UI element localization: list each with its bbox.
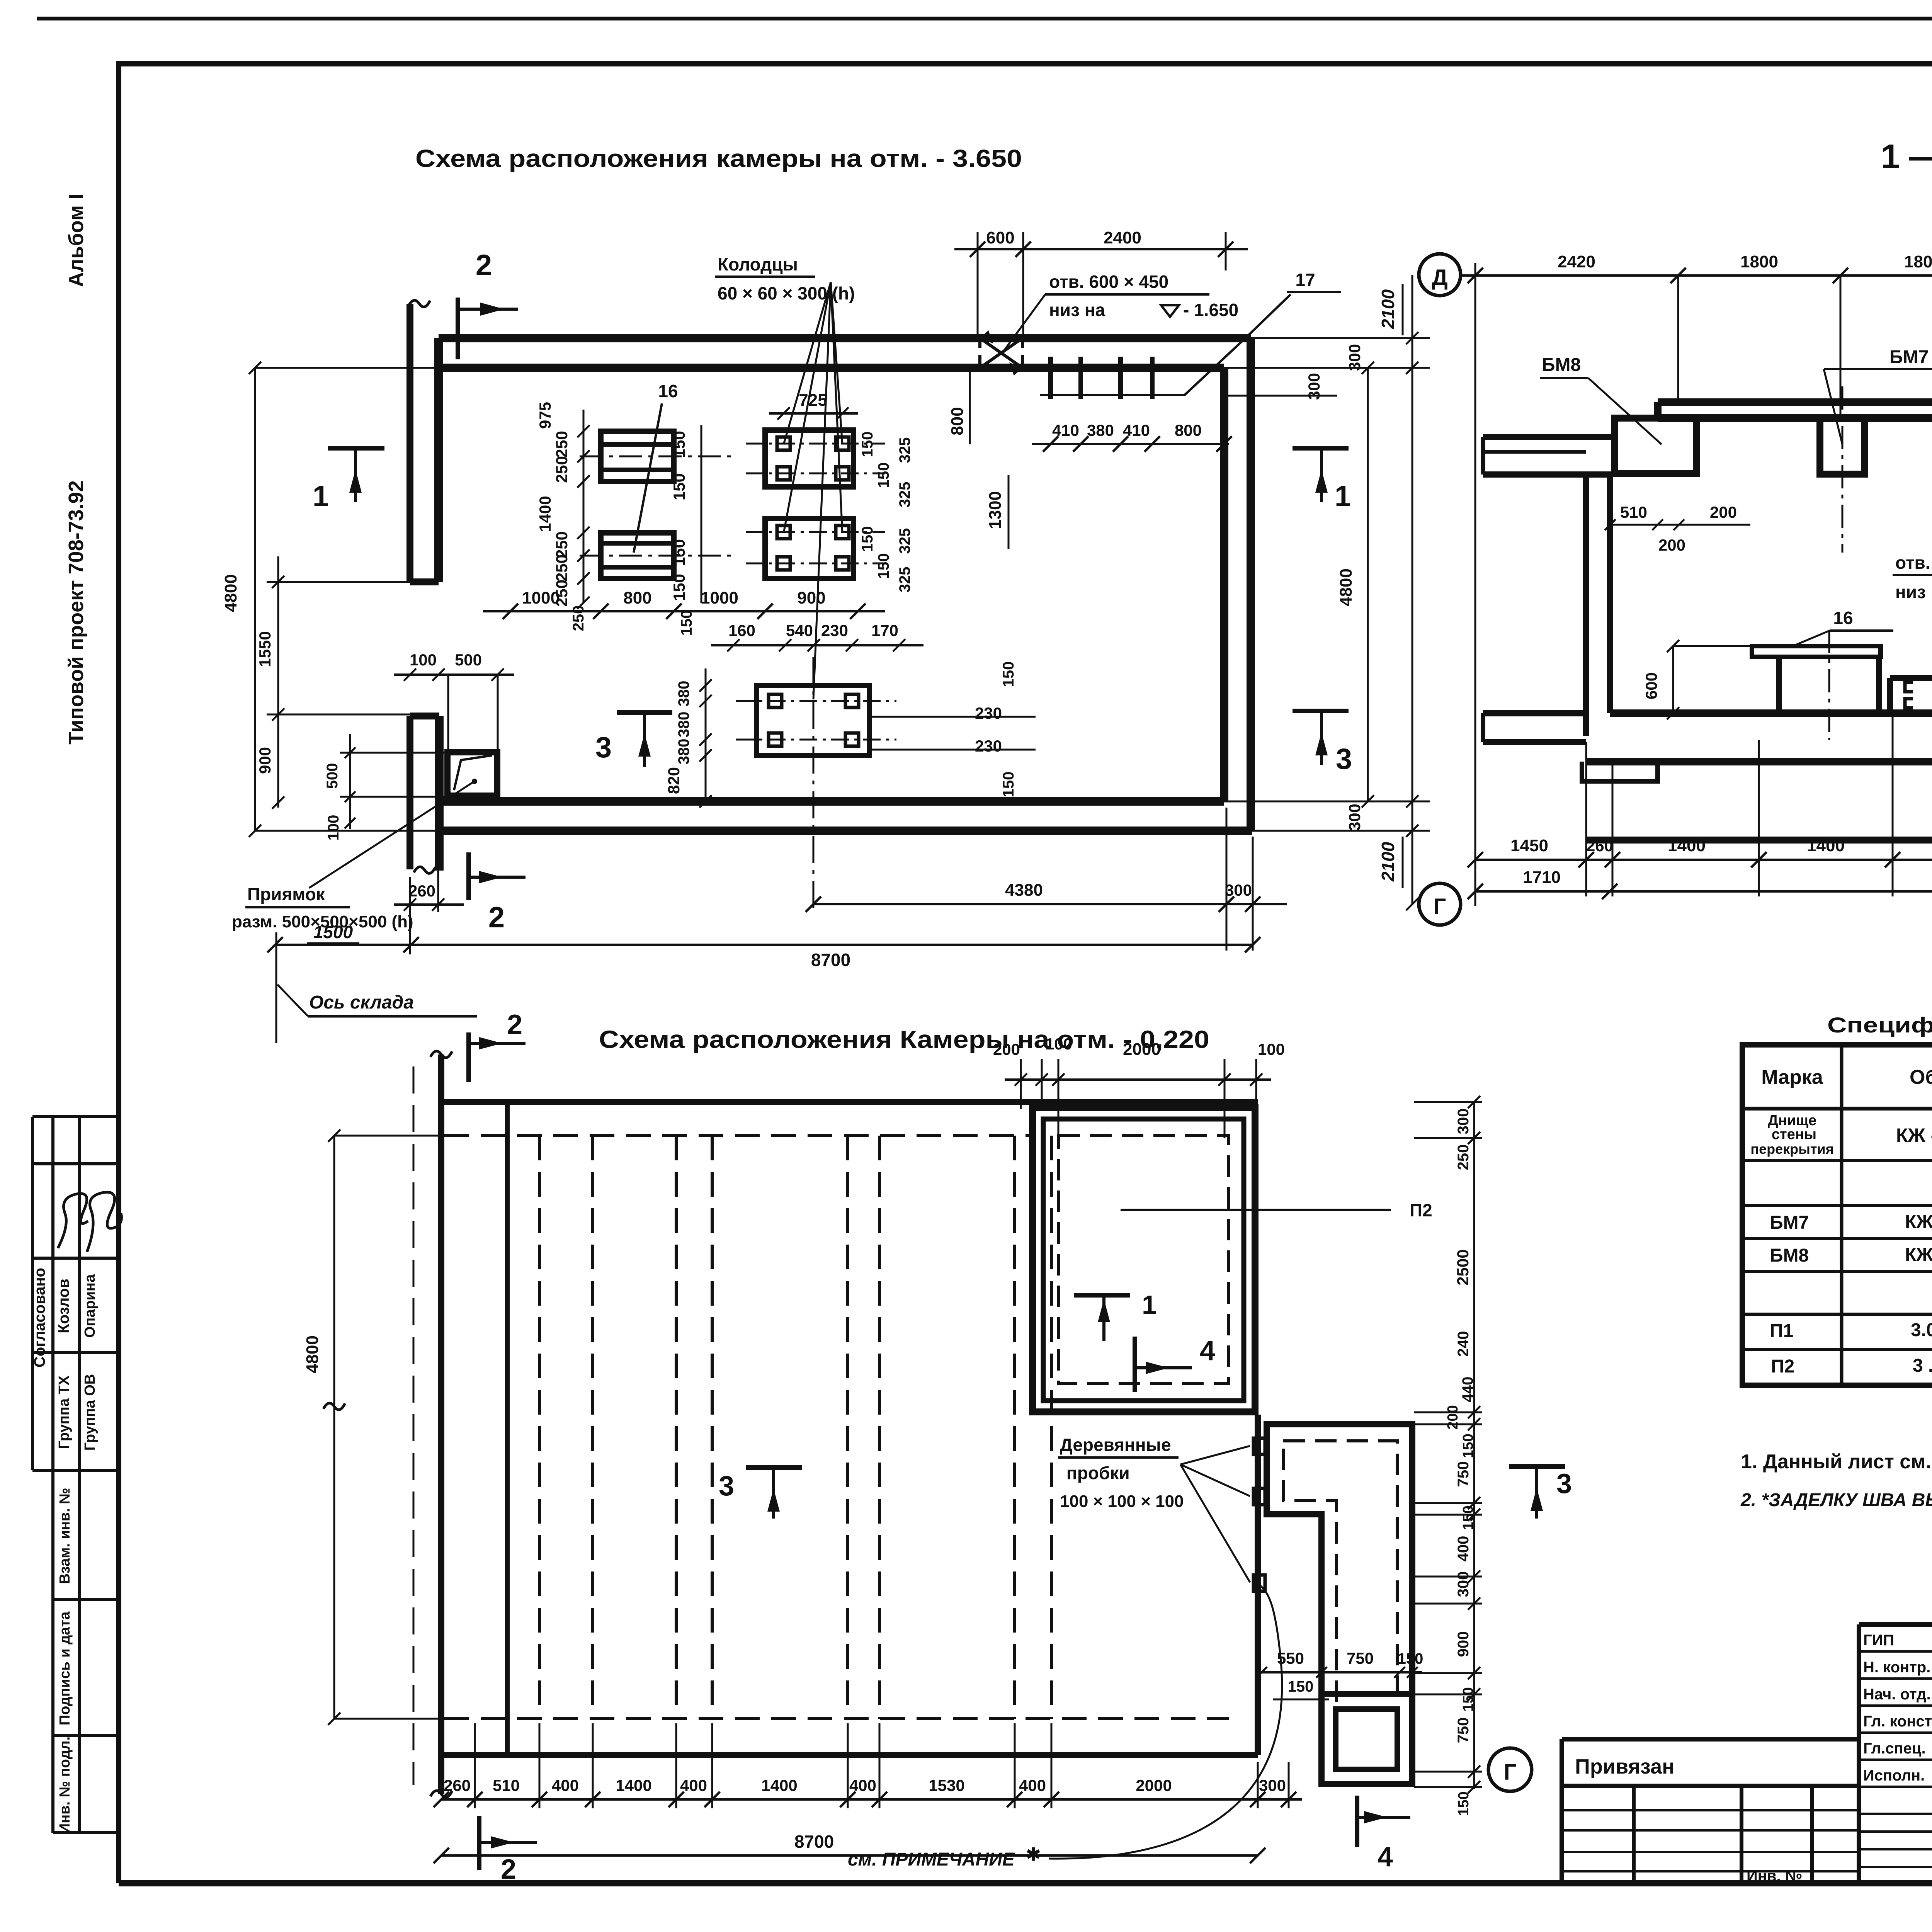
svg-text:230: 230: [975, 704, 1002, 722]
svg-text:Группа ОВ: Группа ОВ: [82, 1374, 98, 1451]
svg-text:2: 2: [476, 249, 492, 282]
section mark 1 left of plan A: [328, 446, 384, 451]
svg-text:БМ8: БМ8: [1542, 355, 1581, 375]
section mark 3 inside plan B: [746, 1465, 802, 1470]
svg-text:17: 17: [1295, 270, 1315, 290]
extension lines left: [255, 367, 439, 369]
plan A room right wall: [1247, 338, 1255, 831]
svg-text:4800: 4800: [303, 1335, 322, 1373]
door jamb symbols: [1905, 682, 1913, 708]
svg-text:Деревянные: Деревянные: [1060, 1435, 1171, 1455]
svg-text:400: 400: [1455, 1536, 1472, 1562]
dim 725 above колодцы: [769, 412, 858, 415]
svg-text:410: 410: [1123, 421, 1150, 439]
колодцы block middle: [765, 519, 854, 578]
svg-text:Н. контр.: Н. контр.: [1863, 1659, 1930, 1676]
beam centerlines dash-dot: [1842, 386, 1844, 553]
svg-text:150: 150: [670, 539, 688, 566]
svg-text:стены: стены: [1772, 1126, 1816, 1143]
section mark 1 right of plan A: [1293, 446, 1349, 451]
svg-text:2: 2: [488, 901, 505, 934]
svg-text:4: 4: [1200, 1335, 1215, 1366]
svg-text:4380: 4380: [1005, 881, 1043, 900]
slab step under left wall: [1582, 762, 1658, 781]
svg-text:2. *ЗАДЕЛКУ ШВА ВЫПОЛНЯТ: 2. *ЗАДЕЛКУ ШВА ВЫПОЛНЯТЬ ИЗ БИТУМНОЙ ЭЛ…: [1740, 1489, 1932, 1510]
svg-text:1: 1: [313, 480, 329, 513]
svg-text:П2: П2: [1410, 1200, 1432, 1220]
svg-text:410: 410: [1052, 421, 1079, 439]
svg-text:900: 900: [797, 588, 825, 607]
svg-text:1550: 1550: [256, 631, 274, 667]
plan B bottom dim row: [441, 1798, 1302, 1801]
plan A room bottom wall: [439, 797, 1224, 806]
svg-text:низ на: низ на: [1049, 300, 1105, 320]
svg-text:пробки: пробки: [1066, 1463, 1130, 1483]
svg-text:500: 500: [455, 651, 482, 669]
svg-text:4: 4: [1378, 1842, 1393, 1872]
duct pit inner square: [1336, 1709, 1397, 1769]
svg-text:- 1.650: - 1.650: [1183, 300, 1238, 320]
svg-text:300: 300: [1455, 1109, 1472, 1134]
svg-text:100: 100: [410, 651, 437, 669]
svg-text:300: 300: [1345, 344, 1364, 371]
svg-text:200: 200: [993, 1040, 1020, 1058]
svg-text:150: 150: [1288, 1678, 1314, 1695]
svg-text:КЖ - 33 ; КЖ - 35: КЖ - 33 ; КЖ - 35: [1896, 1124, 1932, 1146]
svg-text:отв. 600 × 450: отв. 600 × 450: [1895, 553, 1932, 573]
plan B right dim column: [1473, 1102, 1475, 1789]
svg-text:900: 900: [256, 747, 274, 774]
svg-text:Инв. №: Инв. №: [1747, 1867, 1802, 1884]
svg-text:230: 230: [821, 621, 848, 639]
plan B hidden dashed outline: [444, 1134, 1029, 1137]
svg-text:2: 2: [507, 1009, 522, 1040]
section mark 3 right of plan A: [1293, 709, 1349, 713]
svg-text:250: 250: [1455, 1145, 1472, 1170]
svg-text:1000: 1000: [701, 588, 738, 607]
dim 600 pedestal height: [1672, 646, 1674, 713]
svg-text:2000: 2000: [1123, 1040, 1161, 1059]
pos 16 block upper (grate): [601, 431, 674, 481]
dim row 600 2400 above plan A: [954, 248, 1248, 250]
svg-text:230: 230: [975, 737, 1002, 755]
left neighbour top slab: [1483, 434, 1612, 440]
spec table row lines: [1742, 1159, 1932, 1162]
svg-text:2500: 2500: [1454, 1249, 1472, 1285]
svg-text:КЖ - 35: КЖ - 35: [1905, 1245, 1932, 1265]
svg-text:Подпись и дата: Подпись и дата: [57, 1611, 73, 1725]
svg-text:150: 150: [859, 432, 876, 457]
svg-text:1400: 1400: [761, 1776, 797, 1794]
svg-text:1: 1: [1142, 1290, 1156, 1320]
base bottom deep line: [1586, 837, 1932, 844]
plan B storage axis thick line: [438, 1054, 444, 1794]
plan B inner solid line left band: [505, 1102, 510, 1755]
plan A left wall lower segment: [406, 716, 413, 869]
svg-text:150: 150: [859, 526, 876, 552]
svg-text:Г: Г: [1504, 1760, 1517, 1785]
svg-text:150: 150: [670, 431, 688, 458]
svg-text:900: 900: [1455, 1631, 1472, 1657]
duct row dims 550 750 150: [1258, 1671, 1422, 1673]
svg-text:100: 100: [325, 815, 342, 841]
svg-text:3: 3: [1336, 743, 1352, 776]
svg-text:170: 170: [871, 621, 898, 639]
svg-text:400: 400: [552, 1776, 579, 1794]
svg-text:Группа ТХ: Группа ТХ: [56, 1375, 72, 1449]
svg-text:1300: 1300: [986, 491, 1005, 529]
svg-text:800: 800: [948, 407, 967, 435]
svg-text:400: 400: [849, 1776, 876, 1794]
svg-text:3.006.1 - 2.87·2 - 7: 3.006.1 - 2.87·2 - 7: [1911, 1320, 1932, 1340]
sheet top edge line: [37, 17, 1932, 20]
axis circle Г plan B: [1488, 1748, 1532, 1791]
П2 label leader plan B: [1121, 1209, 1391, 1211]
section mark 3 right plan B: [1509, 1464, 1565, 1469]
beam БМ8 cross-section: [1614, 418, 1696, 474]
svg-text:800: 800: [623, 588, 651, 607]
bottom slab line: [1586, 758, 1932, 765]
svg-text:8700: 8700: [794, 1832, 834, 1852]
svg-text:325: 325: [896, 528, 913, 554]
svg-text:1400: 1400: [1668, 836, 1706, 855]
svg-text:Д: Д: [1432, 265, 1447, 290]
svg-text:300: 300: [1305, 373, 1323, 400]
svg-text:150: 150: [875, 463, 892, 488]
приямок pit square: [447, 752, 497, 796]
svg-text:250: 250: [570, 605, 587, 631]
svg-text:150: 150: [1460, 1434, 1476, 1458]
axis vertical dim line between Д and Г: [1475, 263, 1476, 906]
svg-text:725: 725: [799, 391, 827, 410]
svg-text:1800: 1800: [1904, 252, 1932, 271]
svg-text:800: 800: [1175, 421, 1202, 439]
svg-text:отв. 600 × 450: отв. 600 × 450: [1049, 272, 1168, 292]
svg-text:3: 3: [595, 731, 612, 764]
svg-text:БМ7: БМ7: [1770, 1213, 1809, 1233]
well squares in blocks: [777, 437, 790, 450]
П2 slab plan nested rectangles: [1032, 1108, 1255, 1412]
svg-text:500: 500: [324, 763, 341, 789]
label Приямок разм.500x500x500(h) with leader: [309, 781, 474, 888]
svg-text:510: 510: [493, 1776, 520, 1794]
svg-text:БМ7: БМ7: [1889, 347, 1929, 367]
svg-text:600: 600: [1642, 672, 1660, 699]
svg-text:150: 150: [670, 473, 688, 500]
svg-text:150: 150: [678, 610, 695, 636]
svg-text:975: 975: [536, 402, 554, 429]
svg-text:300: 300: [1259, 1776, 1286, 1794]
svg-text:Колодцы: Колодцы: [718, 254, 798, 274]
svg-text:400: 400: [1019, 1776, 1046, 1794]
centerlines through wells: [746, 443, 885, 445]
svg-text:200: 200: [1710, 503, 1737, 521]
svg-text:380: 380: [675, 712, 692, 738]
svg-text:380: 380: [675, 739, 692, 765]
svg-text:200: 200: [1658, 536, 1685, 554]
svg-text:260: 260: [1586, 837, 1613, 855]
колодцы block lower: [757, 685, 869, 755]
svg-text:820: 820: [665, 767, 683, 794]
svg-text:100: 100: [1045, 1035, 1072, 1053]
extension verticals bottom plan B: [474, 1723, 476, 1808]
section floor line -3.650: [1610, 709, 1932, 717]
svg-text:2400: 2400: [1104, 228, 1141, 247]
plan A anchor dashes pos 17 in top wall: [1048, 357, 1053, 399]
svg-text:1800: 1800: [1740, 252, 1778, 271]
svg-text:1500: 1500: [313, 922, 353, 942]
drawing frame: [116, 63, 121, 1883]
svg-text:2000: 2000: [1136, 1776, 1172, 1794]
svg-text:3 . 006.1 - 2.87. 2 - 42: 3 . 006.1 - 2.87. 2 - 42: [1913, 1355, 1932, 1376]
svg-text:250: 250: [553, 456, 571, 483]
dims 100 500 at приямок: [394, 673, 514, 676]
left sidebar approval table: [31, 1117, 34, 1470]
top dim row 2420 1800 1800 1930 2200: [1461, 274, 1932, 277]
svg-text:Ось склада: Ось склада: [309, 992, 414, 1013]
section mark 2 top of plan A: [456, 298, 460, 359]
dim row 160 540 230 170 above lower block: [711, 644, 923, 646]
spec table frame: [1742, 1045, 1932, 1385]
svg-text:160: 160: [728, 621, 755, 639]
svg-text:600: 600: [986, 228, 1014, 247]
section mark 2 bottom of plan A: [466, 852, 471, 900]
привязан table: [1560, 1739, 1564, 1884]
svg-text:перекрытия: перекрытия: [1750, 1141, 1833, 1157]
plan B dashed axis line: [413, 1066, 415, 1785]
svg-text:П2: П2: [1771, 1356, 1794, 1377]
right side dims of plan A: 300 300 4800 300 2100: [1251, 337, 1430, 339]
svg-text:250: 250: [553, 554, 571, 582]
svg-text:260: 260: [408, 882, 435, 900]
svg-text:240: 240: [1455, 1331, 1472, 1357]
svg-text:440: 440: [1459, 1377, 1476, 1403]
svg-text:2100: 2100: [1378, 842, 1398, 882]
dim row top of plan B 200 100 2000 100: [1005, 1078, 1271, 1081]
signature table frame: [1857, 1624, 1861, 1884]
svg-text:3: 3: [719, 1471, 734, 1502]
svg-text:750: 750: [1455, 1461, 1472, 1487]
section left wall: [1583, 474, 1589, 736]
svg-text:Инв. № подл.: Инв. № подл.: [57, 1736, 73, 1834]
svg-text:2: 2: [501, 1854, 516, 1885]
svg-text:1400: 1400: [1807, 836, 1845, 855]
svg-text:400: 400: [680, 1776, 707, 1794]
svg-text:ГИП: ГИП: [1863, 1632, 1894, 1649]
dims 380 380 820 left of lower block: [705, 668, 707, 801]
svg-text:380: 380: [675, 681, 692, 707]
svg-text:325: 325: [896, 567, 913, 593]
spec table header row line: [1742, 1107, 1932, 1111]
svg-text:1450: 1450: [1510, 836, 1548, 855]
svg-text:Схема расположения Камер: Схема расположения Камеры на отм. - 0,22…: [599, 1026, 1209, 1053]
svg-text:1400: 1400: [536, 496, 554, 532]
svg-text:750: 750: [1347, 1649, 1374, 1667]
svg-text:1 — 1: 1 — 1: [1881, 137, 1932, 175]
svg-text:325: 325: [896, 482, 913, 508]
axis circle Г section: [1419, 883, 1461, 925]
svg-text:3: 3: [1556, 1468, 1572, 1499]
svg-text:2420: 2420: [1558, 252, 1595, 271]
svg-text:200: 200: [1445, 1405, 1461, 1429]
svg-text:Гл. констр: Гл. констр: [1863, 1713, 1932, 1730]
svg-text:250: 250: [553, 431, 571, 458]
dim row 1000 800 1000 900 under blocks: [483, 610, 885, 612]
svg-text:380: 380: [1087, 421, 1114, 439]
svg-text:1530: 1530: [929, 1776, 964, 1794]
pos 16 block lower (grate): [601, 533, 674, 578]
svg-text:150: 150: [1398, 1650, 1423, 1667]
beams БМ7 cross-sections: [1820, 418, 1864, 474]
axis circle Д: [1419, 254, 1461, 296]
plan B slab outline: [441, 1099, 1258, 1105]
svg-text:1000: 1000: [522, 588, 560, 607]
svg-text:300: 300: [1225, 881, 1252, 899]
svg-text:540: 540: [786, 621, 813, 639]
centerlines through 16 blocks: [580, 456, 736, 457]
plan B hidden dashed verticals: [538, 1136, 541, 1719]
svg-text:250: 250: [553, 531, 571, 558]
sidebar signatures scribble: [58, 1194, 88, 1248]
svg-text:150: 150: [1460, 1505, 1476, 1530]
svg-text:60 × 60 × 300 (h): 60 × 60 × 300 (h): [718, 283, 855, 303]
duct hidden dashed inner: [1283, 1441, 1397, 1769]
svg-text:1: 1: [1335, 480, 1351, 513]
svg-text:100 × 100 × 100: 100 × 100 × 100: [1060, 1492, 1184, 1511]
svg-text:100: 100: [1258, 1040, 1285, 1058]
svg-text:4800: 4800: [221, 574, 240, 612]
ось склада axis line and label: [276, 932, 277, 1043]
bottom dim row 1710 8440 300: [1475, 890, 1932, 893]
svg-text:16: 16: [658, 381, 678, 401]
svg-text:150: 150: [670, 574, 688, 601]
svg-text:150: 150: [1460, 1687, 1476, 1711]
duct pit partition line: [1321, 1691, 1412, 1697]
wooden plugs squares: [1253, 1438, 1265, 1454]
колодцы block upper: [765, 430, 854, 487]
roof slab double line: [1658, 398, 1932, 406]
svg-text:300: 300: [1455, 1571, 1472, 1597]
plan A room top wall: [439, 334, 1251, 342]
doorway sill in section: [1887, 678, 1893, 713]
dim row 410 380 410 800 inside plan A top right: [1032, 443, 1229, 445]
section mark 2 bottom plan B: [477, 1816, 481, 1870]
bottom dim row 4380 300: [813, 903, 1287, 905]
svg-text:Опарина: Опарина: [82, 1274, 98, 1338]
spec table column lines: [1840, 1045, 1844, 1385]
svg-text:Обозначение: Обозначение: [1910, 1066, 1932, 1088]
section mark 2 top plan B: [466, 1032, 471, 1082]
bottom dim row 1500 8700: [275, 944, 1253, 946]
signature table row lines: [1859, 1650, 1932, 1653]
svg-text:низ на: низ на: [1895, 582, 1932, 602]
svg-text:Спецификация к схемам ра: Спецификация к схемам расположения Вентк…: [1827, 1013, 1932, 1037]
svg-text:Г: Г: [1434, 894, 1446, 919]
svg-text:П1: П1: [1770, 1321, 1793, 1341]
svg-text:150: 150: [1000, 662, 1017, 687]
section mark 4 upper plan B: [1133, 1337, 1137, 1392]
duct appendix outline: [1267, 1424, 1412, 1784]
bottom dim row 1450 260 1400 1400 900: [1475, 859, 1932, 861]
pedestal centerline: [1828, 630, 1830, 740]
section mark 1 right plan B: [1074, 1293, 1130, 1298]
svg-text:150: 150: [1456, 1791, 1472, 1816]
dims left of 16 blocks: 975 250 250 1400 250 250 250: [583, 410, 585, 603]
svg-text:4800: 4800: [1337, 568, 1355, 606]
svg-text:Взам. инв. №: Взам. инв. №: [57, 1488, 73, 1584]
svg-text:Приямок: Приямок: [247, 884, 325, 904]
svg-text:300: 300: [1345, 804, 1364, 831]
svg-text:260: 260: [444, 1776, 471, 1794]
plan B dim 8700 bottom: [441, 1854, 1258, 1857]
svg-text:750: 750: [1455, 1718, 1472, 1743]
section mark 3 left inside plan A: [617, 710, 672, 715]
svg-text:см. ПРИМЕЧАНИЕ: см. ПРИМЕЧАНИЕ: [848, 1849, 1015, 1870]
svg-text:Нач. отд.: Нач. отд.: [1863, 1686, 1931, 1703]
bottom dim row 260: [394, 903, 464, 906]
svg-text:БМ8: БМ8: [1770, 1245, 1809, 1266]
section mark 4 lower plan B: [1355, 1796, 1359, 1847]
svg-text:Козлов: Козлов: [55, 1279, 72, 1333]
svg-text:Марка: Марка: [1761, 1066, 1823, 1088]
svg-text:8700: 8700: [811, 950, 850, 970]
svg-text:1710: 1710: [1523, 868, 1561, 887]
svg-text:1400: 1400: [616, 1776, 651, 1794]
svg-text:Гл.спец.: Гл.спец.: [1863, 1740, 1926, 1757]
svg-text:150: 150: [1000, 772, 1017, 798]
extension verticals bottom dims: [1585, 742, 1587, 896]
plan B left dim 4800: [333, 1136, 335, 1719]
well column centerline to 4380 dim: [813, 657, 815, 910]
svg-text:325: 325: [896, 437, 913, 463]
svg-text:150: 150: [875, 553, 892, 579]
dims right of 16 blocks 150 150 150 150: [701, 425, 702, 603]
svg-text:Исполн.: Исполн.: [1863, 1767, 1925, 1784]
extension verticals from top dim row: [1677, 276, 1679, 402]
svg-text:Типовой проект 708-73.92: Типовой проект 708-73.92: [65, 480, 88, 745]
svg-text:Привязан: Привязан: [1575, 1755, 1675, 1778]
svg-text:16: 16: [1833, 608, 1853, 628]
plan A left wall upper segment: [406, 304, 413, 582]
plan A opening X-box отв 600x450 in top wall: [978, 338, 981, 368]
svg-text:2100: 2100: [1378, 289, 1398, 329]
pedestal pos 16 in section: [1752, 646, 1881, 657]
svg-text:Альбом I: Альбом I: [65, 194, 88, 287]
svg-text:1. Данный лист см. совме: 1. Данный лист см. совместно с листами К…: [1741, 1451, 1932, 1473]
svg-text:✱: ✱: [1026, 1844, 1041, 1864]
left neighbour bottom slab: [1483, 710, 1586, 716]
svg-text:Согласовано: Согласовано: [31, 1268, 48, 1367]
svg-text:Схема расположения камер: Схема расположения камеры на отм. - 3.65…: [415, 145, 1022, 172]
svg-text:510: 510: [1620, 503, 1647, 521]
svg-text:КЖ - 35: КЖ - 35: [1905, 1212, 1932, 1232]
